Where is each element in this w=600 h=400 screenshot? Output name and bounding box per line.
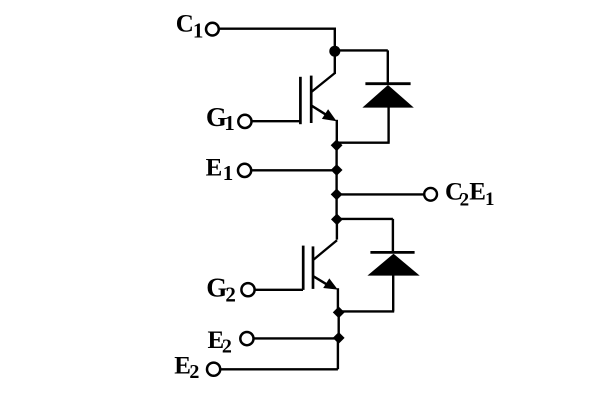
Q2 gate bar [302, 246, 305, 290]
svg-text:E: E [206, 154, 223, 181]
wire bus bottom segment [338, 312, 340, 338]
label E2 lower [174, 352, 199, 383]
junction diamond E2-Q2 node [333, 307, 345, 319]
label C1 [176, 11, 204, 43]
label C2E1 [445, 179, 495, 211]
D2 triangle [367, 254, 419, 276]
svg-text:1: 1 [224, 111, 235, 135]
D1 triangle [362, 85, 413, 108]
transistor Q2 (IGBT lower) [303, 240, 338, 290]
wire emitter Q2 down to diamond [337, 288, 339, 313]
junction diamond C2 node [331, 214, 343, 226]
svg-text:2: 2 [460, 190, 470, 211]
svg-text:E: E [469, 179, 486, 206]
Q2 body bar [312, 246, 315, 289]
label G2 [206, 273, 236, 307]
svg-text:2: 2 [189, 361, 199, 383]
terminal E2 lower [207, 363, 220, 376]
svg-text:C: C [176, 11, 194, 38]
junction dot top node [329, 46, 340, 57]
wire E2 lower lead [220, 338, 338, 369]
wire bus middle segment [335, 145, 337, 220]
diode D1 (upper freewheel) [362, 84, 413, 108]
wire D2 anode down-left to bus [339, 275, 395, 312]
wire emitter Q1 down bus [336, 120, 338, 146]
junction diamond C2E1 node [331, 189, 343, 201]
label E2 upper [208, 327, 232, 358]
D2 cathode bar [370, 251, 414, 254]
svg-text:E: E [174, 352, 191, 379]
Q2 emitter diagonal [313, 276, 331, 287]
wire diamond to diode D2 top [337, 219, 393, 252]
terminal G1 [238, 115, 251, 128]
wire gate lead G1 [252, 120, 301, 122]
junction diamond E2 node [333, 332, 345, 344]
Q1 body bar [310, 76, 313, 123]
wire E2 upper lead [254, 337, 339, 339]
Q2 emitter arrowhead [323, 278, 338, 289]
junction diamond E1 node [331, 164, 343, 176]
junction diamond D1-anode node [331, 139, 343, 151]
label G1 [206, 102, 235, 135]
terminal E1 [238, 164, 251, 177]
wire bus collector Q2 [336, 219, 338, 239]
svg-text:1: 1 [193, 18, 204, 42]
Q2 collector diagonal [314, 240, 337, 259]
svg-text:2: 2 [222, 336, 232, 358]
svg-text:1: 1 [223, 161, 234, 185]
label E1 [206, 154, 234, 185]
terminal C2E1 [424, 188, 437, 201]
diode D2 (lower freewheel) [367, 252, 419, 275]
transistor Q1 (IGBT upper) [300, 73, 336, 125]
wire E1 lead [251, 169, 336, 171]
Q1 collector diagonal [312, 73, 336, 92]
Q1 emitter arrowhead [322, 109, 337, 121]
terminal G2 [241, 283, 254, 296]
wire node to C2E1 terminal [337, 193, 424, 195]
wire dot to diode D1 top [335, 50, 388, 83]
wire bus collector Q1 [334, 51, 336, 74]
wire C1 to bus [219, 29, 335, 47]
terminal E2 upper [240, 332, 253, 345]
svg-text:G: G [206, 273, 227, 303]
svg-text:1: 1 [485, 189, 495, 210]
wire D1 anode down-left to bus [336, 107, 389, 143]
D1 cathode bar [365, 82, 410, 85]
svg-text:2: 2 [225, 283, 236, 307]
terminal C1 [206, 23, 219, 36]
Q1 gate bar [299, 77, 302, 124]
Q1 emitter diagonal [312, 106, 330, 118]
wire gate lead G2 [255, 289, 303, 291]
